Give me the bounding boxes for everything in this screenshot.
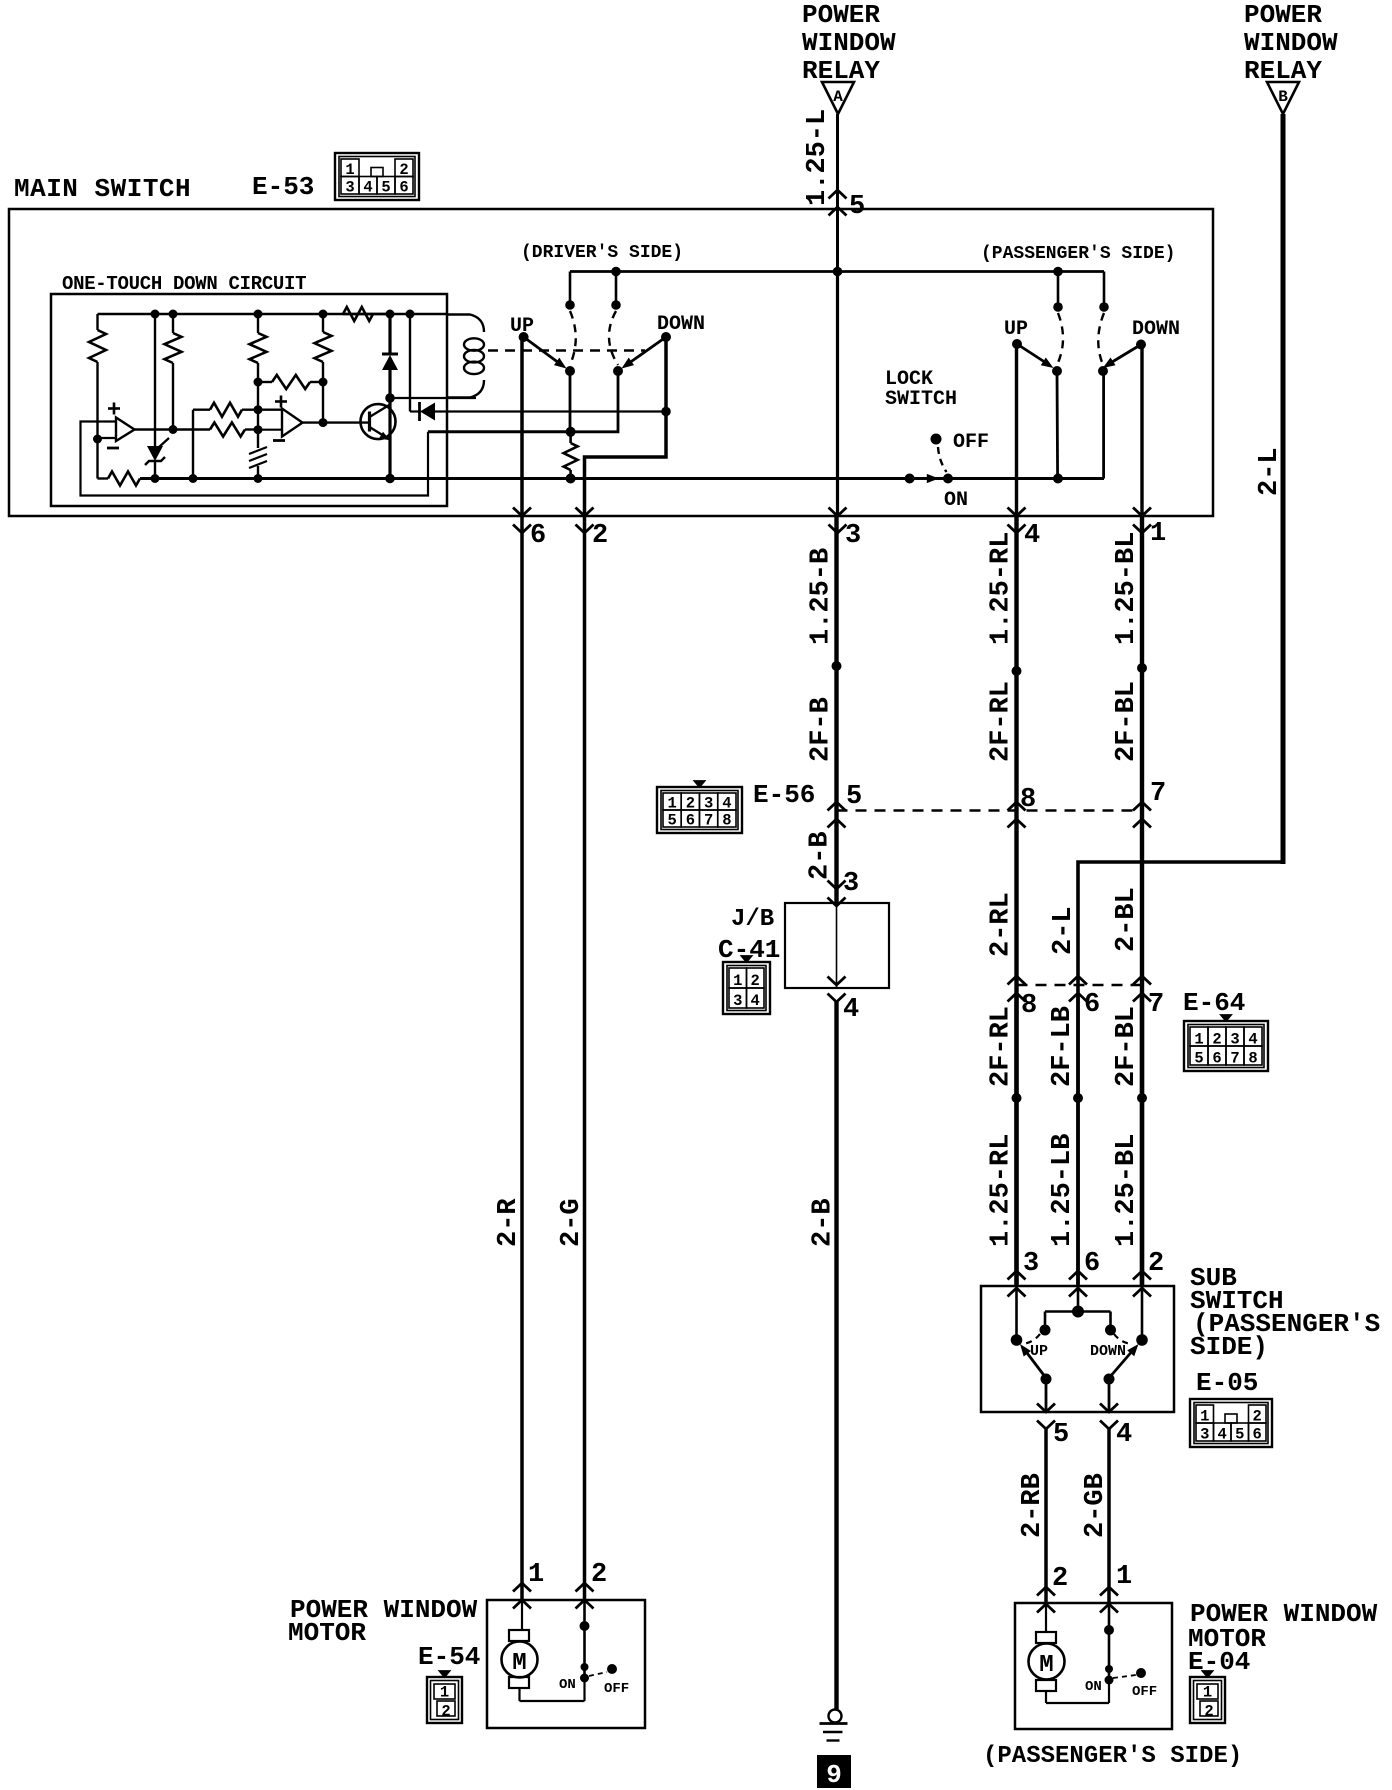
wire 2-GB to passenger motor <box>1107 1429 1111 1603</box>
wire 1.25-RL trunk <box>1014 516 1018 1286</box>
POWER WINDOW MOTOR label (right) <box>1188 1599 1378 1677</box>
wire UP moving contact to common node <box>569 371 572 432</box>
svg-text:7: 7 <box>1148 990 1164 1020</box>
svg-text:DOWN: DOWN <box>1090 1343 1126 1360</box>
svg-text:ONE-TOUCH DOWN CIRCUIT: ONE-TOUCH DOWN CIRCUIT <box>62 273 306 295</box>
wire 1.25-B / 2-B trunk <box>836 272 839 517</box>
exit arrows pin 3 (1.25-B) <box>829 508 847 517</box>
svg-text:4: 4 <box>363 179 372 197</box>
svg-text:4: 4 <box>722 795 731 813</box>
svg-text:4: 4 <box>1218 1426 1227 1444</box>
svg-text:2: 2 <box>1052 1564 1068 1594</box>
op-amp U2 - input wire <box>258 429 282 431</box>
svg-text:2-RL: 2-RL <box>987 892 1017 957</box>
sub moving contact dots <box>1041 1374 1115 1385</box>
resistor R3 <box>250 314 267 448</box>
op-amp U1 (comparator 1) <box>107 403 135 449</box>
LOCK SWITCH label <box>885 368 957 411</box>
sub switch center feed <box>1040 1286 1117 1336</box>
svg-text:(PASSENGER'S SIDE): (PASSENGER'S SIDE) <box>983 1743 1242 1770</box>
motor entry arrows pin 1 (2-GB) <box>1100 1587 1118 1596</box>
relay symbol A (triangle) <box>822 82 854 114</box>
connector E-56 <box>657 787 742 833</box>
svg-text:2F-LB: 2F-LB <box>1048 1006 1078 1087</box>
main switch box <box>9 209 1213 516</box>
svg-text:4: 4 <box>751 992 760 1010</box>
power window relay A label <box>802 0 896 86</box>
collector node wire to coil <box>390 397 476 399</box>
driver switch dashed throw arcs <box>570 311 618 365</box>
page number 9 marker <box>817 1755 851 1790</box>
svg-text:2-G: 2-G <box>557 1198 587 1247</box>
svg-text:OFF: OFF <box>1132 1684 1157 1700</box>
solenoid coil L1 <box>446 315 484 398</box>
svg-text:(DRIVER'S SIDE): (DRIVER'S SIDE) <box>521 243 683 263</box>
zener diode ZD1 <box>145 438 169 479</box>
svg-text:C-41: C-41 <box>718 935 780 965</box>
svg-text:7: 7 <box>1150 779 1166 809</box>
wire through J/B <box>836 903 838 988</box>
exit arrows pin 1 (1.25-BL) <box>1133 508 1151 517</box>
svg-text:3: 3 <box>845 521 861 551</box>
exit arrows pin 2 (2-G) <box>576 508 594 517</box>
wire pin4 from passenger UP pivot <box>1015 344 1018 516</box>
E-56 arrows pin 5 <box>828 802 846 811</box>
relay symbol B (triangle) <box>1267 82 1299 114</box>
mechanical link dashed line from coil <box>488 349 645 351</box>
svg-text:7: 7 <box>704 812 713 830</box>
lock switch arm with arrow <box>905 474 968 513</box>
wire 2-G: DOWN pivot jog down to motor <box>585 337 667 1600</box>
op-amp U1 - input wire <box>98 437 117 439</box>
E-56 dashed connector line <box>837 809 1143 812</box>
wire 2F-RL to sub switch <box>1014 993 1018 1286</box>
svg-text:3: 3 <box>843 869 859 899</box>
wire 2-L horizontal to 2F-LB column <box>1078 862 1283 1286</box>
wire 1.25-L from relay A down to main switch <box>836 114 839 272</box>
svg-text:A: A <box>833 88 843 106</box>
svg-text:2F-RL: 2F-RL <box>987 681 1017 762</box>
svg-text:3: 3 <box>1023 1249 1039 1279</box>
resistor R1 (left bias) <box>89 314 106 439</box>
svg-text:1.25-RL: 1.25-RL <box>987 532 1017 645</box>
wire DOWN moving contact to lock rail corner <box>1102 371 1105 479</box>
svg-text:1.25-BL: 1.25-BL <box>1112 532 1142 645</box>
svg-text:2-GB: 2-GB <box>1081 1473 1111 1538</box>
common node dot <box>566 427 576 437</box>
svg-text:4: 4 <box>1248 1031 1257 1049</box>
junction dot 1.25-B/2F-B <box>832 661 842 671</box>
connector E-05 <box>1190 1399 1272 1447</box>
junction dot on bottom rail x390 <box>151 474 395 484</box>
svg-text:ON: ON <box>1085 1679 1102 1695</box>
junction dot U1 output / R2 <box>169 425 178 434</box>
one-touch bottom rail with resistor R9 <box>98 472 1105 486</box>
E-64 arrows pin 6 <box>1069 976 1087 985</box>
svg-text:5: 5 <box>1053 1420 1069 1450</box>
svg-text:OFF: OFF <box>953 431 989 454</box>
svg-text:OFF: OFF <box>604 1681 629 1697</box>
driver DOWN switch arm <box>622 332 672 369</box>
svg-text:6: 6 <box>399 179 408 197</box>
passenger moving contact dots <box>1052 366 1108 376</box>
resistor R10 below common node <box>564 432 578 484</box>
wire 2-L from relay B down right side <box>1281 114 1286 864</box>
resistor R5 (top horizontal) <box>343 307 390 321</box>
svg-text:3: 3 <box>1200 1426 1209 1444</box>
svg-text:4: 4 <box>1116 1420 1132 1450</box>
svg-text:DOWN: DOWN <box>1132 318 1180 341</box>
sub switch output wires <box>1046 1378 1109 1412</box>
sub UP switch arm <box>1020 1344 1046 1378</box>
lock switch OFF contact <box>931 431 990 454</box>
power window relay B label <box>1244 0 1338 86</box>
sub switch entry arrows pin 3 <box>1008 1271 1026 1280</box>
svg-text:5: 5 <box>1194 1050 1203 1068</box>
svg-text:6: 6 <box>1212 1050 1221 1068</box>
svg-text:8: 8 <box>1021 991 1037 1021</box>
wire UP moving contact to lock rail <box>1056 371 1059 479</box>
svg-text:6: 6 <box>1084 990 1100 1020</box>
svg-text:1: 1 <box>667 795 676 813</box>
resistor R7 (mid horizontal) <box>258 375 323 389</box>
sub exit arrows pin 4 <box>1100 1404 1118 1413</box>
svg-text:2-BL: 2-BL <box>1112 887 1142 952</box>
svg-text:1: 1 <box>1203 1684 1212 1702</box>
svg-text:WINDOW: WINDOW <box>802 28 896 58</box>
motor entry arrows pin 2 (2-G) <box>576 1583 594 1592</box>
exit arrows pin 4 (1.25-RL) <box>1008 508 1026 517</box>
motor M2 (passenger) <box>1029 1603 1065 1703</box>
svg-text:2: 2 <box>1148 1249 1164 1279</box>
svg-text:2-B: 2-B <box>806 831 836 880</box>
wire 1.25-B below box <box>834 516 838 903</box>
SUB SWITCH label <box>1190 1263 1380 1362</box>
junction dot 1.25-RL/2F-RL <box>1012 666 1022 676</box>
svg-text:M: M <box>512 1650 526 1677</box>
svg-text:E-05: E-05 <box>1196 1368 1258 1398</box>
sub switch entry arrows pin 6 <box>1069 1271 1087 1280</box>
svg-text:6: 6 <box>530 521 546 551</box>
J/B entry arrows <box>828 881 846 890</box>
transistor Q1 <box>361 404 396 440</box>
E-56 arrows pin 7 <box>1133 802 1151 811</box>
driver UP switch arm <box>519 332 567 369</box>
motor 2 breaker branch <box>1046 1603 1157 1703</box>
resistor R4 <box>315 314 332 423</box>
ground symbol <box>820 1710 848 1741</box>
svg-text:6: 6 <box>1084 1249 1100 1279</box>
driver switch top feed rail <box>570 270 1104 273</box>
svg-text:2-RB: 2-RB <box>1018 1473 1048 1538</box>
wire pin1 from passenger DOWN pivot <box>1140 345 1143 517</box>
passenger DOWN switch arm <box>1103 340 1146 369</box>
svg-text:1: 1 <box>1194 1031 1203 1049</box>
junction dot collector node <box>385 393 395 403</box>
sub DOWN switch arm <box>1109 1344 1139 1378</box>
svg-text:WINDOW: WINDOW <box>1244 28 1338 58</box>
wire 2-RB to passenger motor <box>1044 1429 1048 1603</box>
svg-text:2: 2 <box>441 1703 450 1721</box>
svg-text:2: 2 <box>1204 1703 1213 1721</box>
svg-text:ON: ON <box>944 489 968 512</box>
svg-text:(PASSENGER'S SIDE): (PASSENGER'S SIDE) <box>981 244 1175 264</box>
svg-text:1: 1 <box>440 1684 449 1702</box>
svg-text:8: 8 <box>1020 785 1036 815</box>
svg-text:6: 6 <box>686 812 695 830</box>
svg-text:SIDE): SIDE) <box>1190 1332 1268 1362</box>
wire 2-R from UP pivot down to motor <box>520 337 524 1600</box>
junction dots on top rail <box>151 310 415 319</box>
connector E-54 <box>427 1677 462 1723</box>
wire 2F-LB to sub switch <box>1076 993 1080 1286</box>
feed rail junction dots <box>611 267 1063 277</box>
svg-text:E-04: E-04 <box>1188 1647 1250 1677</box>
node dot R1/op-amp inverting input <box>93 435 102 444</box>
svg-text:1.25-BL: 1.25-BL <box>1112 1134 1142 1247</box>
connector E-53 <box>335 153 419 200</box>
svg-text:M: M <box>1039 1652 1053 1679</box>
sub switch box <box>981 1286 1174 1412</box>
J/B label <box>718 906 780 965</box>
connector E-64 <box>1184 1021 1268 1071</box>
wire 2F-BL to sub switch <box>1140 993 1144 1286</box>
pin 5 entry arrows into main switch <box>829 190 847 199</box>
svg-text:2: 2 <box>592 521 608 551</box>
passenger UP switch arm <box>1012 339 1054 368</box>
motor 1 breaker branch <box>520 1600 630 1701</box>
svg-text:2-L: 2-L <box>1049 906 1079 955</box>
E-64 arrows pin 8 <box>1008 976 1026 985</box>
wire 2-B down to ground <box>834 1002 838 1709</box>
svg-text:MOTOR: MOTOR <box>288 1618 366 1648</box>
one-touch top supply rail <box>98 313 447 315</box>
E-64 arrows pin 7 <box>1133 976 1151 985</box>
op-amp U2 (comparator 2) <box>273 396 303 441</box>
resistor R2 <box>165 314 182 430</box>
svg-text:4: 4 <box>843 995 859 1025</box>
driver moving contact dots <box>565 366 623 376</box>
sub exit arrows pin 5 <box>1037 1404 1055 1413</box>
sense line from one-touch to UP/DOWN common node <box>428 430 571 433</box>
junction dot DOWN pivot / D2 line <box>661 407 671 417</box>
svg-text:5: 5 <box>846 782 862 812</box>
passenger switch dashed throw arcs <box>1057 313 1104 365</box>
wire 1.25-BL trunk <box>1140 516 1144 1286</box>
junction block J/B box <box>785 903 889 988</box>
junction dot 2F-RL/1.25-RL <box>1012 1093 1022 1103</box>
svg-text:9: 9 <box>826 1760 842 1790</box>
junction dot 1.25-BL/2F-BL <box>1137 663 1147 673</box>
op-amp U1 + input feedback loop wire <box>81 422 429 496</box>
svg-text:2F-RL: 2F-RL <box>987 1006 1017 1087</box>
svg-text:J/B: J/B <box>731 906 774 933</box>
connector C-41 <box>723 962 770 1014</box>
svg-text:1.25-L: 1.25-L <box>803 109 833 206</box>
wire rail to D2 branch <box>409 314 411 412</box>
svg-text:E-54: E-54 <box>418 1642 480 1672</box>
E-56 arrows pin 8 <box>1008 802 1026 811</box>
svg-text:2-B: 2-B <box>809 1198 839 1247</box>
svg-text:SWITCH: SWITCH <box>885 388 957 411</box>
wire zener branch from rail <box>154 314 156 446</box>
passenger fixed contact stubs <box>1053 272 1109 312</box>
connector E-04 <box>1190 1677 1225 1723</box>
motor M1 (driver) <box>502 1600 538 1701</box>
motor entry arrows pin 1 (2-R) <box>513 1583 531 1592</box>
diode D2 <box>410 402 435 421</box>
svg-text:1: 1 <box>528 1560 544 1590</box>
svg-text:6: 6 <box>1253 1426 1262 1444</box>
sub switch entry arrows pin 2 <box>1133 1271 1151 1280</box>
wire DOWN moving contact to common node <box>571 371 618 432</box>
svg-text:3: 3 <box>733 992 742 1010</box>
E-64 dashed connector line <box>1017 984 1143 987</box>
svg-text:1: 1 <box>1116 1562 1132 1592</box>
J/B exit arrows <box>828 977 846 986</box>
svg-text:2F-BL: 2F-BL <box>1112 681 1142 762</box>
svg-text:E-56: E-56 <box>753 780 815 810</box>
driver fixed contact stubs <box>565 272 621 310</box>
svg-text:2F-BL: 2F-BL <box>1112 1006 1142 1087</box>
sub switch dashed throw arcs <box>1022 1334 1132 1344</box>
svg-text:4: 4 <box>1024 521 1040 551</box>
svg-text:2: 2 <box>591 1560 607 1590</box>
svg-text:5: 5 <box>849 192 865 222</box>
svg-text:3: 3 <box>345 179 354 197</box>
POWER WINDOW MOTOR label (left) <box>288 1595 480 1672</box>
junction dot 2F-LB/1.25-LB <box>1073 1093 1083 1103</box>
svg-text:2-L: 2-L <box>1255 447 1285 496</box>
op-amp U1 output wire with resistor R6 <box>135 423 259 437</box>
svg-text:1.25-RL: 1.25-RL <box>987 1134 1017 1247</box>
svg-text:UP: UP <box>1030 1343 1048 1360</box>
preset symbol on R3 branch <box>249 447 267 479</box>
junction dot on lock rail <box>1053 474 1063 484</box>
svg-text:2-R: 2-R <box>494 1198 524 1247</box>
diode D1 with collector line <box>382 314 398 479</box>
svg-text:E-64: E-64 <box>1183 988 1245 1018</box>
wire R1 node down to bottom rail <box>96 439 98 479</box>
svg-text:2: 2 <box>686 795 695 813</box>
svg-text:5: 5 <box>667 812 676 830</box>
svg-text:5: 5 <box>1235 1426 1244 1444</box>
svg-text:1: 1 <box>1150 519 1166 549</box>
svg-text:3: 3 <box>704 795 713 813</box>
svg-text:1.25-LB: 1.25-LB <box>1048 1134 1078 1247</box>
resistor R8 (to + input of U2) <box>193 403 282 479</box>
svg-text:2F-B: 2F-B <box>807 697 837 762</box>
svg-text:8: 8 <box>722 812 731 830</box>
svg-text:2: 2 <box>1212 1031 1221 1049</box>
svg-text:MAIN SWITCH: MAIN SWITCH <box>14 174 191 204</box>
svg-text:7: 7 <box>1230 1050 1239 1068</box>
op-amp U2 output wire to transistor base <box>303 421 370 423</box>
svg-text:POWER: POWER <box>1244 0 1322 30</box>
junction dot 2F-BL/1.25-BL <box>1137 1093 1147 1103</box>
svg-text:5: 5 <box>381 179 390 197</box>
svg-text:UP: UP <box>1004 318 1028 341</box>
exit arrows pin 6 (2-R) <box>513 508 531 517</box>
svg-text:B: B <box>1278 88 1288 106</box>
svg-text:8: 8 <box>1248 1050 1257 1068</box>
passenger motor box <box>1015 1603 1172 1729</box>
svg-text:3: 3 <box>1230 1031 1239 1049</box>
driver motor box <box>487 1600 645 1728</box>
junction dot U2 output / R4 <box>319 418 328 427</box>
svg-text:1.25-B: 1.25-B <box>807 548 837 645</box>
junction dots R7 <box>254 378 328 387</box>
motor entry arrows pin 2 (2-RB) <box>1037 1587 1055 1596</box>
svg-text:POWER: POWER <box>802 0 880 30</box>
sub switch side pivots <box>1011 1286 1148 1346</box>
wire D2 to driver DOWN switch <box>435 410 666 412</box>
svg-text:E-53: E-53 <box>252 172 314 202</box>
lock switch dashed throw <box>938 447 947 472</box>
one-touch down circuit box <box>51 294 447 506</box>
junction dots on node column x=258 <box>254 405 263 434</box>
svg-text:ON: ON <box>559 1677 576 1693</box>
